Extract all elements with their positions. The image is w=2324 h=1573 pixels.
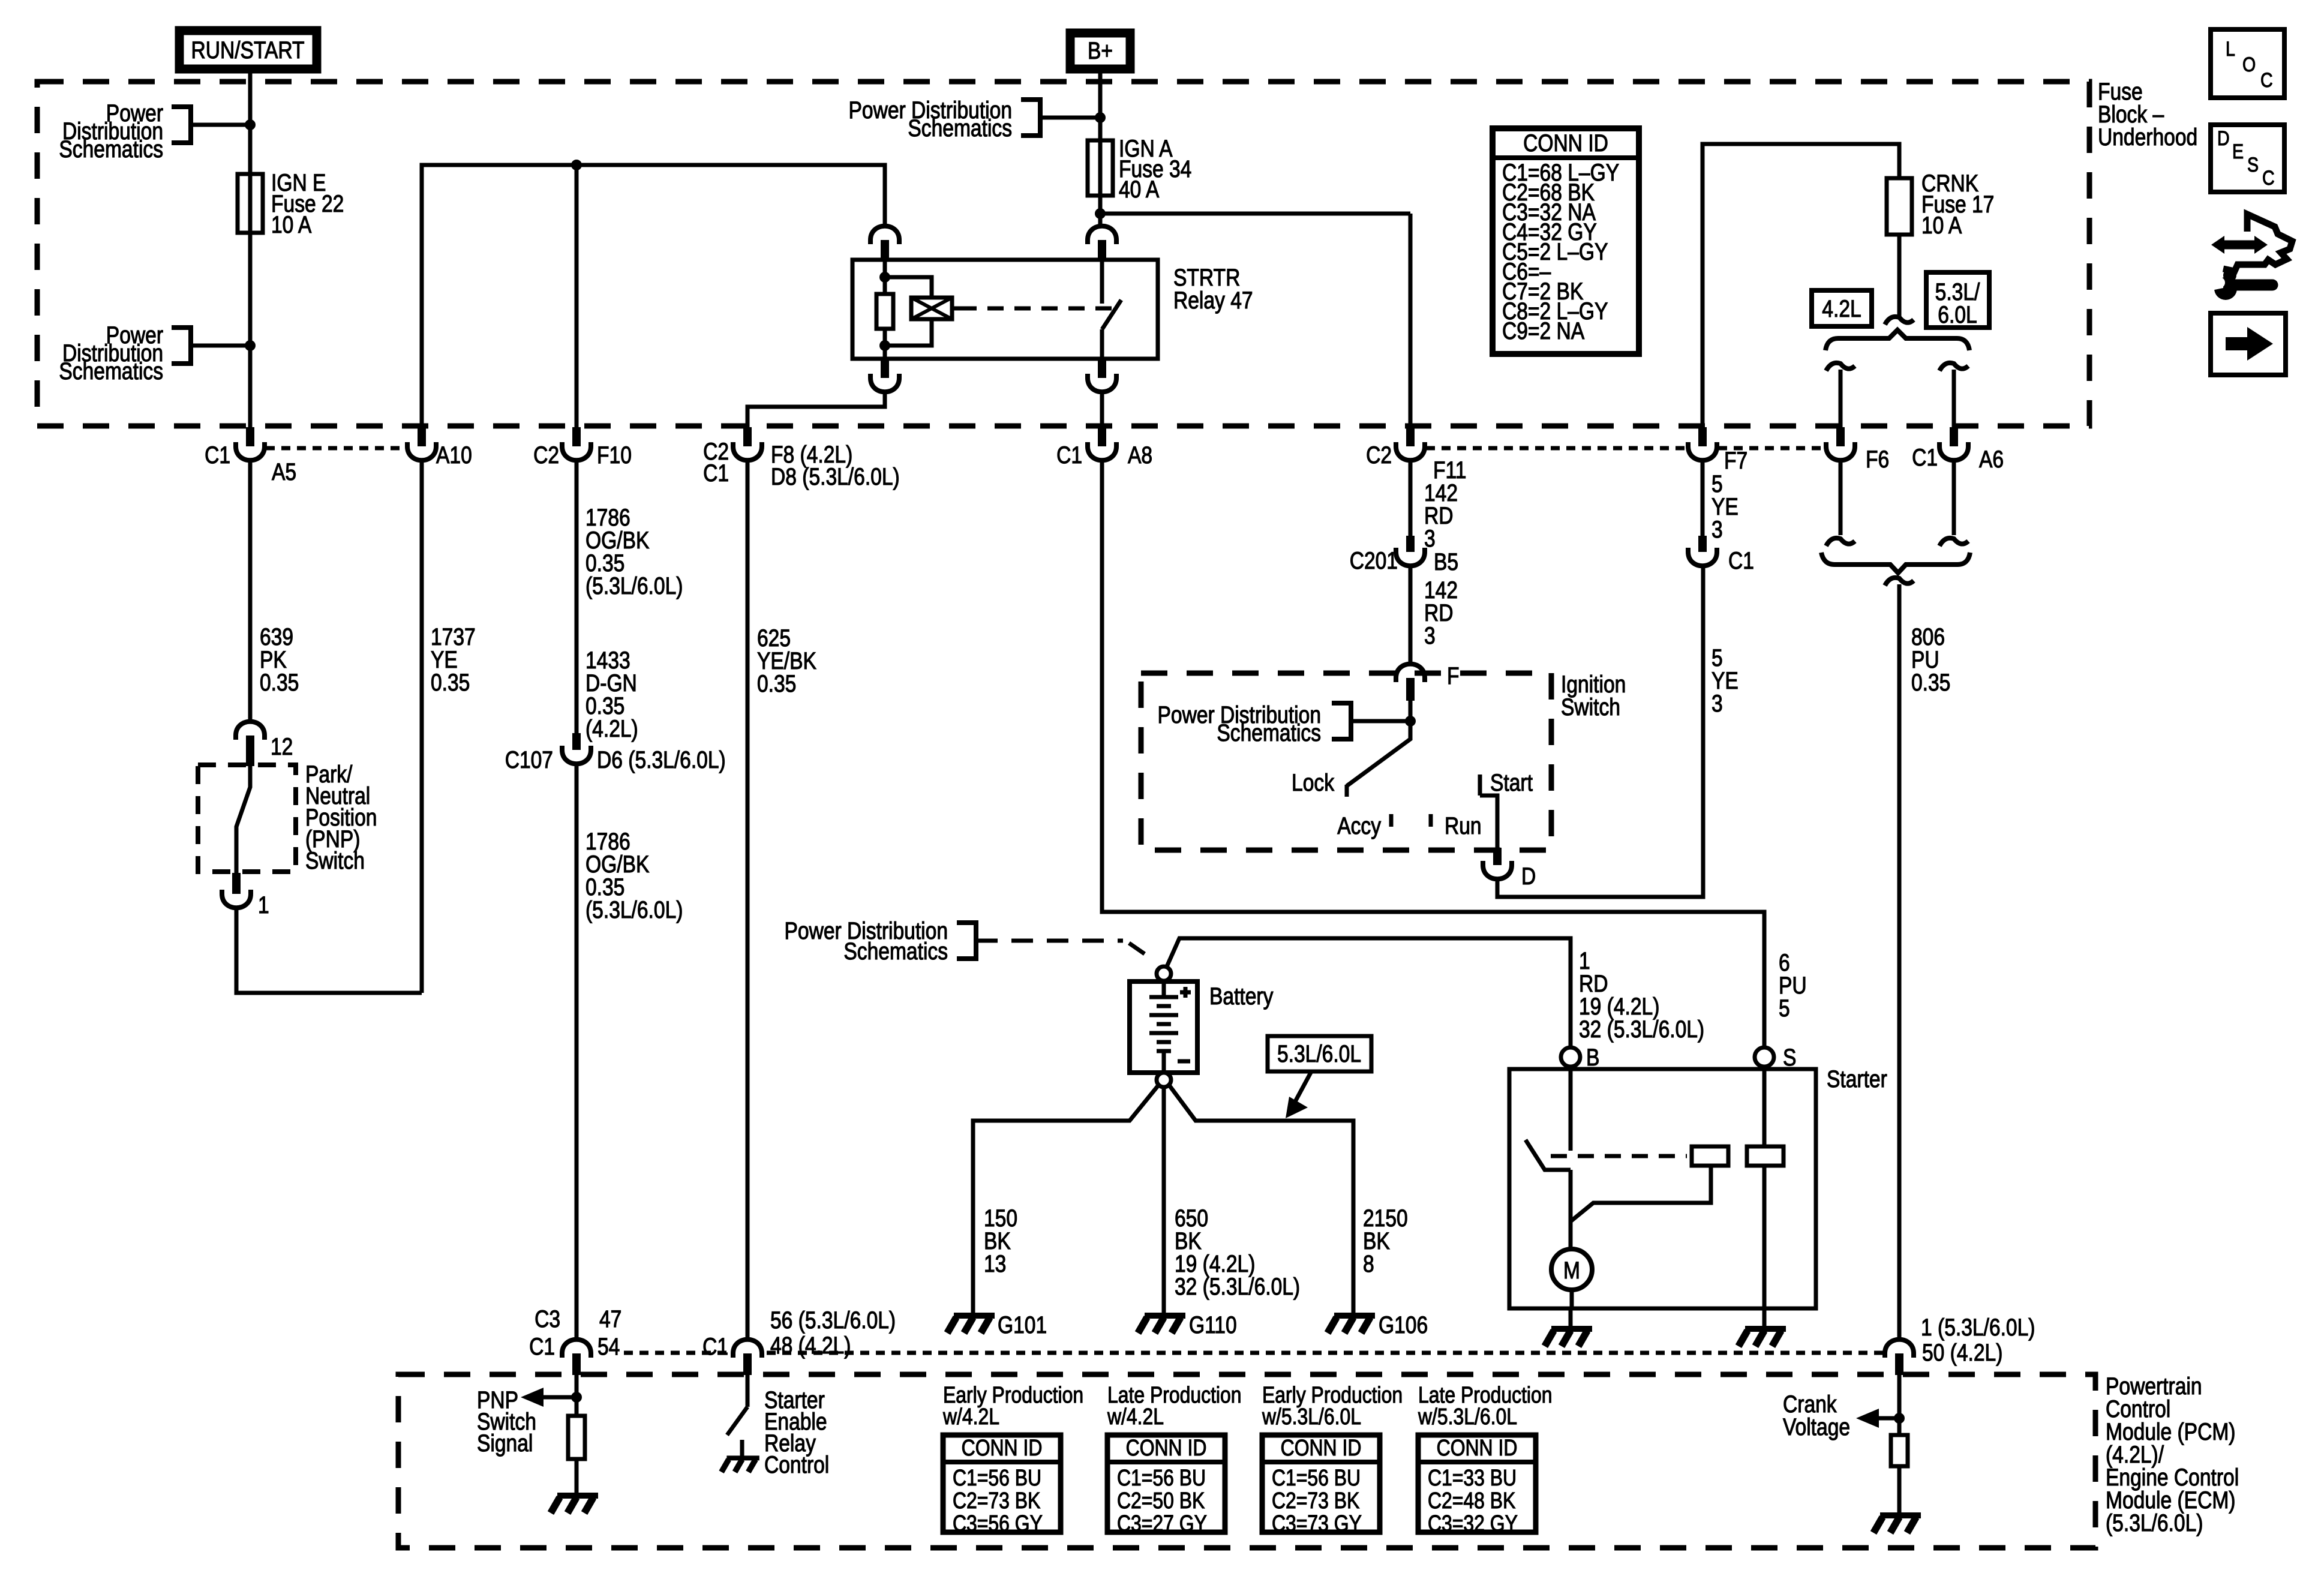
icon LOC box xyxy=(2211,29,2284,98)
svg-text:O: O xyxy=(2242,53,2256,76)
connector C107 pin D6 xyxy=(572,733,581,750)
svg-text:C1: C1 xyxy=(205,442,230,468)
wire PNP 1 to A10 branch xyxy=(236,908,422,993)
svg-text:10 A: 10 A xyxy=(1921,212,1962,238)
svg-text:S: S xyxy=(2247,154,2259,176)
svg-text:Battery: Battery xyxy=(1209,983,1274,1009)
Lock contact tick xyxy=(1345,785,1349,797)
fuse IGN E Fuse 22 10A xyxy=(238,174,263,233)
wire bracket to wire xyxy=(191,344,250,348)
svg-text:5: 5 xyxy=(1779,995,1790,1021)
wire IGN A to ignition switch feed xyxy=(1100,212,1410,216)
svg-text:12: 12 xyxy=(271,733,293,760)
wire relay switch output xyxy=(1100,329,1104,359)
dashed actuator link relay xyxy=(960,307,1115,311)
junction dot crank voltage xyxy=(1894,1413,1905,1424)
svg-text:w/4.2L: w/4.2L xyxy=(1107,1404,1164,1429)
svg-text:Schematics: Schematics xyxy=(59,136,163,162)
svg-text:C3=32 GY: C3=32 GY xyxy=(1428,1511,1518,1536)
svg-text:C2: C2 xyxy=(533,442,559,468)
svg-text:Schematics: Schematics xyxy=(908,115,1012,141)
svg-text:B: B xyxy=(1586,1044,1599,1070)
connector half F6 branch top xyxy=(1826,363,1855,371)
battery plus sign xyxy=(1180,990,1191,995)
svg-text:B5: B5 xyxy=(1434,548,1458,575)
wire bracket to B+ wire xyxy=(1040,116,1100,120)
junction dot PNP signal xyxy=(571,1392,582,1403)
wire solenoid ground stub xyxy=(1762,1308,1767,1327)
wire A10 down leg xyxy=(420,461,424,993)
motor M circle xyxy=(1551,1249,1592,1290)
svg-text:C1=56 BU: C1=56 BU xyxy=(1117,1465,1206,1490)
ground starter motor xyxy=(1545,1329,1592,1346)
wire motor ground stub xyxy=(1569,1308,1573,1327)
wire coil to solenoid top jog xyxy=(885,277,932,298)
svg-text:1 (5.3L/6.0L): 1 (5.3L/6.0L) xyxy=(1921,1314,2035,1340)
wire CRNK fuse down to split xyxy=(1897,235,1902,317)
dashed wire battery feed xyxy=(976,939,1123,943)
connector pin 12 xyxy=(236,722,265,740)
table CONN ID (fuse block) xyxy=(1493,128,1639,354)
node B+ box xyxy=(1070,33,1130,69)
wire F11 drop xyxy=(1409,214,1413,427)
wire relay coil bottom lead xyxy=(883,329,887,359)
svg-text:C2=73 BK: C2=73 BK xyxy=(1272,1488,1359,1513)
svg-text:4.2L: 4.2L xyxy=(1822,295,1861,322)
svg-text:8: 8 xyxy=(1363,1250,1374,1277)
svg-text:Switch: Switch xyxy=(305,847,365,873)
junction dot lower xyxy=(245,340,256,351)
arrow 5.3L/6.0L callout xyxy=(1295,1071,1311,1103)
connector pin F6 xyxy=(1836,427,1845,446)
wire crank voltage inside PCM xyxy=(1897,1375,1902,1434)
svg-text:C1=33 BU: C1=33 BU xyxy=(1428,1465,1517,1490)
relay STRTR Relay 47 box xyxy=(852,260,1158,359)
svg-text:C1: C1 xyxy=(1056,442,1082,468)
connector half CRNK lead xyxy=(1885,317,1914,325)
svg-text:1: 1 xyxy=(258,891,269,918)
svg-text:5.3L/6.0L: 5.3L/6.0L xyxy=(1277,1040,1361,1067)
dotted connector row right xyxy=(1426,446,1687,451)
svg-text:6.0L: 6.0L xyxy=(1938,301,1977,328)
svg-text:Start: Start xyxy=(1490,769,1533,795)
connector half relay switch bottom xyxy=(1098,359,1106,378)
wire B contact xyxy=(1569,1067,1573,1151)
bracket power distribution schematics (battery) xyxy=(957,923,976,959)
wire PNP signal inside PCM xyxy=(575,1375,579,1416)
wire crank resistor to ground xyxy=(1897,1466,1902,1512)
connector C2 pin F10 xyxy=(572,427,581,446)
wire relay coil out to F8/D8 xyxy=(747,392,885,427)
svg-text:40 A: 40 A xyxy=(1119,176,1160,202)
junction dot ignition feed xyxy=(1405,716,1416,727)
wire solenoid contact return xyxy=(1571,1166,1711,1221)
wire relay switch out to A8 xyxy=(1100,392,1104,427)
dashed switch tail xyxy=(1129,943,1145,954)
wire F8/D8 to PCM C1 48 xyxy=(746,461,750,1339)
svg-text:C2=48 BK: C2=48 BK xyxy=(1428,1488,1515,1513)
junction dot to C2 F10 xyxy=(571,160,582,170)
battery minus sign xyxy=(1178,1059,1190,1064)
node 5.3L/6.0L battery callout xyxy=(1268,1036,1371,1071)
dotted module row left xyxy=(624,1351,729,1355)
svg-text:CONN ID: CONN ID xyxy=(1126,1435,1207,1460)
icon wrench and arrows xyxy=(2203,214,2292,300)
wire starter arm to motor xyxy=(1569,1170,1573,1249)
svg-text:Schematics: Schematics xyxy=(59,358,163,384)
connector C201 pin B5 xyxy=(1406,536,1415,552)
svg-text:Underhood: Underhood xyxy=(2098,124,2197,150)
svg-text:32 (5.3L/6.0L): 32 (5.3L/6.0L) xyxy=(1579,1016,1704,1042)
svg-text:C1: C1 xyxy=(1912,444,1938,470)
connector half 806 top xyxy=(1885,578,1914,586)
svg-text:0.35: 0.35 xyxy=(1911,669,1950,695)
svg-text:32 (5.3L/6.0L): 32 (5.3L/6.0L) xyxy=(1175,1273,1300,1299)
svg-text:Switch: Switch xyxy=(1561,694,1620,720)
wire relay switch fixed contact xyxy=(1100,260,1104,304)
svg-text:RUN/START: RUN/START xyxy=(191,37,304,63)
svg-text:C1: C1 xyxy=(703,460,729,486)
svg-text:F7: F7 xyxy=(1724,447,1747,473)
ground PNP xyxy=(551,1496,598,1513)
wire bracket to F wire xyxy=(1351,719,1410,724)
wire battery positive diagonal xyxy=(1167,938,1571,1048)
connector half relay switch top xyxy=(1088,226,1116,244)
wire F10 to C107 xyxy=(575,461,579,733)
wire junction down to C2 F10 xyxy=(575,165,579,427)
svg-text:C201: C201 xyxy=(1350,547,1398,574)
ground crank xyxy=(1873,1515,1921,1533)
svg-text:D: D xyxy=(2217,127,2230,150)
battery plates xyxy=(1162,981,1166,997)
PCM dashed box xyxy=(398,1374,2095,1548)
connector half relay coil bottom xyxy=(881,359,889,378)
wire solenoid bottom jog xyxy=(885,319,932,346)
connector C1 pin A6 xyxy=(1950,427,1958,446)
svg-text:50 (4.2L): 50 (4.2L) xyxy=(1922,1339,2002,1365)
svg-text:C107: C107 xyxy=(505,746,553,773)
svg-text:0.35: 0.35 xyxy=(431,669,470,695)
resistor PNP pull xyxy=(568,1416,585,1459)
wire D to F7 riser xyxy=(1497,566,1703,897)
wire C201 to F xyxy=(1409,566,1413,665)
connector C1 pin A8 xyxy=(1098,427,1106,446)
wire A6 below xyxy=(1952,461,1956,535)
wire bracket to RUN/START wire xyxy=(191,123,250,127)
connector pin F7 xyxy=(1698,427,1707,446)
svg-text:A10: A10 xyxy=(436,442,472,468)
svg-text:3: 3 xyxy=(1712,516,1723,542)
svg-text:A8: A8 xyxy=(1128,442,1152,468)
svg-text:Run: Run xyxy=(1445,812,1482,839)
wire A10 to relay coil xyxy=(422,165,885,428)
svg-text:CONN ID: CONN ID xyxy=(1437,1435,1518,1460)
wire S contact xyxy=(1762,1067,1767,1146)
junction dot below IGN A fuse xyxy=(1095,208,1106,219)
junction dot at RUN/START wire xyxy=(245,119,256,130)
wire RUN/START down to connector C1 A5 xyxy=(248,73,253,430)
svg-text:(5.3L/6.0L): (5.3L/6.0L) xyxy=(585,896,683,923)
svg-text:M: M xyxy=(1563,1257,1580,1283)
ground starter solenoid xyxy=(1739,1329,1786,1346)
svg-text:CONN ID: CONN ID xyxy=(962,1435,1043,1460)
svg-text:C1=56 BU: C1=56 BU xyxy=(953,1465,1041,1490)
ground G106 xyxy=(1328,1316,1375,1333)
PNP switch blade xyxy=(236,766,250,873)
svg-text:Voltage: Voltage xyxy=(1783,1413,1850,1440)
svg-text:13: 13 xyxy=(984,1250,1006,1277)
svg-text:C2=50 BK: C2=50 BK xyxy=(1117,1488,1205,1513)
starter switch arm xyxy=(1526,1140,1571,1170)
battery box xyxy=(1130,981,1197,1073)
PNP switch dashed box xyxy=(198,765,296,872)
wire F6 branch xyxy=(1839,370,1843,430)
wire battery negative to G106 xyxy=(1169,1085,1353,1313)
svg-text:C1: C1 xyxy=(529,1333,555,1359)
svg-text:D6 (5.3L/6.0L): D6 (5.3L/6.0L) xyxy=(597,746,726,773)
svg-text:47: 47 xyxy=(599,1305,621,1332)
starter terminal B circle xyxy=(1561,1047,1580,1067)
svg-text:(5.3L/6.0L): (5.3L/6.0L) xyxy=(585,572,683,599)
wire F7 to C1 xyxy=(1701,461,1705,536)
connector C1 pin A10 xyxy=(418,427,426,446)
connector half F6 bottom xyxy=(1826,538,1855,546)
fuse block underhood dashed boundary box xyxy=(37,82,2089,426)
svg-text:3: 3 xyxy=(1712,690,1723,716)
wire PNP resistor to ground xyxy=(575,1459,579,1493)
wire F11 to C201 xyxy=(1409,461,1413,536)
svg-text:0.35: 0.35 xyxy=(757,670,796,697)
solenoid contact rect 2 xyxy=(1747,1146,1783,1166)
svg-text:Schematics: Schematics xyxy=(1217,719,1321,746)
wire motor to box bottom xyxy=(1570,1290,1574,1308)
connector pin F ignition switch xyxy=(1396,664,1425,682)
wire battery negative to G101 xyxy=(973,1085,1158,1313)
wire C107 to PCM C3/C1 xyxy=(575,764,579,1339)
svg-text:w/5.3L/6.0L: w/5.3L/6.0L xyxy=(1262,1404,1361,1429)
fuse CRNK Fuse 17 10A xyxy=(1887,178,1912,235)
wire F6 below xyxy=(1839,461,1843,535)
svg-text:C1=56 BU: C1=56 BU xyxy=(1272,1465,1361,1490)
svg-text:D8 (5.3L/6.0L): D8 (5.3L/6.0L) xyxy=(771,463,900,490)
dotted connector row left xyxy=(266,446,407,451)
svg-text:Starter: Starter xyxy=(1827,1065,1887,1092)
wire A6 branch xyxy=(1952,370,1956,430)
svg-text:w/5.3L/6.0L: w/5.3L/6.0L xyxy=(1418,1404,1517,1429)
bracket power distribution schematics (lower left) xyxy=(172,328,191,364)
wire A8 to starter S xyxy=(1102,461,1764,1048)
connector C1 pin A5 xyxy=(246,427,254,446)
resistor crank sense xyxy=(1891,1435,1908,1466)
bracket power distribution schematics (ignition) xyxy=(1332,703,1351,739)
bracket power distribution schematics (upper left) xyxy=(172,107,191,143)
Accy contact tick xyxy=(1389,814,1394,827)
Run contact tick xyxy=(1429,814,1433,827)
connector pin 1 xyxy=(232,873,241,894)
battery negative terminal circle xyxy=(1157,1073,1171,1087)
svg-text:A6: A6 xyxy=(1979,446,2004,472)
ignition switch rotor to Lock xyxy=(1347,701,1410,786)
solenoid X box xyxy=(911,298,952,319)
wire F7 riser to CRNK xyxy=(1703,144,1899,427)
svg-text:C2: C2 xyxy=(1366,442,1392,468)
svg-text:G106: G106 xyxy=(1379,1311,1428,1338)
connector C2/C1 pin F8/D8 xyxy=(743,427,752,446)
Start contact tick xyxy=(1478,775,1482,795)
svg-text:Accy: Accy xyxy=(1337,812,1381,839)
connector pin D xyxy=(1493,848,1502,865)
connector C2 pin F11 xyxy=(1406,427,1415,446)
dotted module row right xyxy=(767,1351,1884,1355)
wire S coil to ground xyxy=(1762,1166,1767,1308)
ground G101 xyxy=(947,1316,995,1333)
wire relay coil lead xyxy=(883,260,887,294)
icon DESC box xyxy=(2211,125,2284,192)
svg-text:10 A: 10 A xyxy=(271,211,312,238)
wire Start to D xyxy=(1480,795,1497,848)
node 4.2L callout box xyxy=(1812,290,1872,326)
connector half A6 branch top xyxy=(1939,363,1968,371)
starter box xyxy=(1509,1069,1816,1308)
wire B+ down to relay xyxy=(1098,73,1103,227)
svg-text:F6: F6 xyxy=(1866,446,1889,472)
node 5.3L/6.0L callout box xyxy=(1926,272,1989,328)
svg-text:G110: G110 xyxy=(1189,1311,1237,1338)
wire A5 to PNP 12 xyxy=(248,461,253,722)
svg-text:54: 54 xyxy=(597,1333,620,1359)
ground G110 xyxy=(1138,1316,1185,1333)
starter terminal S circle xyxy=(1755,1047,1774,1067)
svg-text:C3=73 GY: C3=73 GY xyxy=(1272,1511,1362,1536)
svg-text:D: D xyxy=(1521,863,1536,889)
dashed actuator link starter xyxy=(1551,1154,1687,1158)
fuse IGN A Fuse 34 40A xyxy=(1088,140,1113,196)
svg-text:F: F xyxy=(1447,662,1460,689)
svg-text:C: C xyxy=(2262,167,2275,190)
node RUN/START box xyxy=(179,31,317,69)
wire 806 PU to PCM xyxy=(1897,584,1902,1339)
connector half A6 bottom xyxy=(1939,538,1968,546)
svg-text:56 (5.3L/6.0L): 56 (5.3L/6.0L) xyxy=(770,1307,896,1333)
icon next-page arrow box xyxy=(2211,313,2286,375)
svg-text:Relay 47: Relay 47 xyxy=(1173,287,1253,313)
junction dot coil bottom xyxy=(879,340,890,351)
svg-text:F10: F10 xyxy=(597,442,632,468)
svg-text:A5: A5 xyxy=(272,458,296,485)
brace merge F6 A6 xyxy=(1821,553,1970,573)
svg-text:C1: C1 xyxy=(702,1333,728,1359)
svg-text:3: 3 xyxy=(1424,622,1436,649)
svg-text:Control: Control xyxy=(764,1451,829,1478)
relay switch arm xyxy=(1102,300,1121,329)
battery positive terminal circle xyxy=(1157,966,1171,981)
junction dot coil top xyxy=(879,272,890,283)
svg-text:C: C xyxy=(2260,69,2273,92)
connector C1 below F7 xyxy=(1698,536,1707,552)
svg-text:C2=73 BK: C2=73 BK xyxy=(953,1488,1040,1513)
svg-text:0.35: 0.35 xyxy=(260,669,299,695)
svg-text:L: L xyxy=(2226,38,2235,61)
svg-text:Lock: Lock xyxy=(1292,769,1334,795)
svg-text:G101: G101 xyxy=(998,1311,1047,1338)
svg-text:CONN ID: CONN ID xyxy=(1523,130,1608,156)
wire battery negative to G110 xyxy=(1162,1087,1166,1313)
resistor relay coil xyxy=(876,294,893,329)
svg-text:CONN ID: CONN ID xyxy=(1281,1435,1362,1460)
dotted connector row F7-F6 xyxy=(1718,446,1825,451)
svg-text:B+: B+ xyxy=(1088,37,1113,64)
starter enable ground stub xyxy=(740,1440,744,1457)
bracket power distribution schematics (B+) xyxy=(1021,100,1040,136)
svg-text:Schematics: Schematics xyxy=(843,938,948,964)
arrow PNP switch signal xyxy=(544,1395,577,1400)
svg-text:E: E xyxy=(2232,140,2244,163)
svg-text:48 (4.2L): 48 (4.2L) xyxy=(770,1332,851,1358)
svg-text:C3=27 GY: C3=27 GY xyxy=(1117,1511,1207,1536)
svg-text:C3: C3 xyxy=(535,1305,560,1332)
svg-text:w/4.2L: w/4.2L xyxy=(942,1404,999,1429)
svg-text:(4.2L): (4.2L) xyxy=(585,715,638,742)
svg-text:C3=56 GY: C3=56 GY xyxy=(953,1511,1043,1536)
svg-text:C9=2 NA: C9=2 NA xyxy=(1502,317,1585,344)
ground starter enable xyxy=(722,1458,759,1472)
brace split to F6 and A6 xyxy=(1825,330,1969,350)
ignition switch dashed box xyxy=(1141,673,1551,850)
arrow crank voltage xyxy=(1879,1416,1899,1421)
junction dot on B+ wire xyxy=(1095,112,1106,123)
svg-text:C1: C1 xyxy=(1728,547,1754,574)
svg-text:Signal: Signal xyxy=(477,1430,533,1456)
starter enable relay switch xyxy=(746,1375,750,1407)
connector half relay coil top xyxy=(870,226,899,244)
solenoid contact rect 1 xyxy=(1692,1146,1728,1166)
svg-text:(5.3L/6.0L): (5.3L/6.0L) xyxy=(2106,1509,2203,1536)
svg-text:S: S xyxy=(1783,1044,1796,1070)
